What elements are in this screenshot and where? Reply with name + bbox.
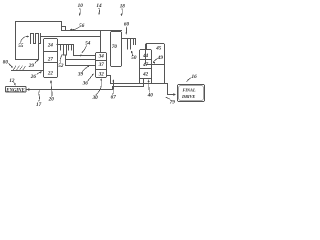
input shaft line (26, 87, 143, 90)
svg-text:FINAL: FINAL (183, 88, 196, 93)
planetary gearset 30: ring 34 / carrier 37 / sun 32 (96, 53, 107, 78)
svg-text:49: 49 (157, 55, 164, 61)
svg-text:DRIVE: DRIVE (181, 94, 195, 99)
arrowhead into engine (26, 88, 29, 90)
label 67 arrow (111, 79, 117, 100)
svg-text:17: 17 (36, 102, 42, 108)
svg-text:24: 24 (47, 43, 54, 48)
svg-text:ENGINE: ENGINE (5, 88, 25, 93)
motor/generator 70 box (111, 32, 122, 67)
svg-text:32: 32 (98, 72, 105, 77)
label 30 arrow (92, 78, 103, 101)
svg-text:80: 80 (3, 59, 9, 65)
label 60 (124, 22, 130, 35)
clutch 56 notch (62, 22, 66, 31)
clutch 50 (comb) (122, 39, 136, 50)
housing right wall (164, 65, 166, 84)
label 79 (166, 97, 175, 105)
output wire to final drive (168, 84, 174, 95)
clutch 55 (interleaved plates) (31, 34, 41, 60)
ground 80 hatch (12, 66, 44, 71)
svg-text:26: 26 (30, 74, 37, 80)
svg-text:39: 39 (77, 72, 84, 78)
label 80 (3, 59, 13, 68)
housing top lower edge (62, 30, 122, 32)
svg-text:52: 52 (58, 63, 64, 69)
svg-text:37: 37 (98, 63, 105, 68)
ring 34 stem (100, 31, 102, 53)
housing top edge (16, 21, 62, 23)
label 29 (28, 59, 39, 69)
label 14 (96, 3, 102, 15)
label 54 (82, 41, 91, 53)
svg-text:10: 10 (78, 3, 84, 9)
label 56 (70, 23, 85, 31)
svg-text:40: 40 (147, 92, 154, 98)
sun 42 stem (143, 79, 145, 87)
svg-text:56: 56 (79, 23, 85, 29)
label 55 (18, 36, 29, 49)
svg-text:54: 54 (85, 41, 91, 47)
final drive 16 box (178, 85, 205, 102)
label 26 (30, 72, 42, 80)
svg-text:16: 16 (192, 74, 198, 80)
svg-text:67: 67 (111, 95, 117, 101)
housing member line to clutch 55 stem (16, 59, 39, 61)
svg-text:45: 45 (155, 46, 162, 51)
engine 12 box (5, 87, 26, 94)
label 40 arrow (147, 80, 154, 99)
planetary gearset 40: ring 44 / carrier 47 / sun 42 (140, 50, 152, 79)
svg-text:42: 42 (142, 72, 149, 77)
svg-text:22: 22 (47, 72, 54, 77)
label 10 (78, 3, 84, 16)
label 17 (36, 91, 42, 108)
svg-text:30: 30 (92, 95, 99, 101)
svg-text:27: 27 (47, 58, 54, 63)
housing left wall (15, 22, 17, 60)
label 36 (82, 74, 94, 87)
ring42 edge wires (140, 79, 152, 84)
label 12 (9, 78, 16, 86)
svg-text:79: 79 (170, 99, 176, 105)
label 18 (120, 3, 126, 16)
clutch 52 legs (64, 45, 67, 60)
svg-text:18: 18 (120, 3, 126, 9)
svg-text:36: 36 (82, 80, 89, 86)
planetary gearset 20: ring 24 / carrier 27 / sun 22 (44, 39, 58, 78)
brake 45 box (146, 44, 165, 65)
label 16 (187, 74, 197, 81)
label 20 arrow (48, 80, 55, 102)
svg-text:55: 55 (18, 43, 24, 49)
svg-text:34: 34 (98, 55, 105, 60)
svg-text:29: 29 (28, 63, 35, 69)
svg-text:50: 50 (131, 55, 137, 61)
ring 44 stem (146, 44, 148, 50)
label 50 (131, 51, 137, 62)
label 49 (153, 55, 164, 64)
bus member to carrier 37 (66, 60, 96, 66)
label 39 (77, 65, 90, 77)
clutch 54 (comb) (57, 45, 96, 57)
sun32 step wire (107, 76, 111, 84)
interconnect ring24 to ring34 stem (41, 36, 101, 38)
svg-text:70: 70 (112, 45, 118, 50)
svg-text:20: 20 (48, 96, 55, 102)
output member line (111, 83, 168, 85)
label 52 (58, 55, 64, 69)
